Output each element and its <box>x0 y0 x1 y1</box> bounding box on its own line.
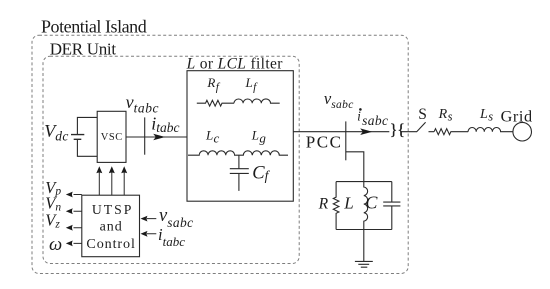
svg-text:and: and <box>100 220 123 235</box>
svg-text:Vz: Vz <box>45 211 60 231</box>
svg-text:UTSP: UTSP <box>92 202 133 217</box>
svg-text:itabc: itabc <box>151 113 179 135</box>
svg-text:Vdc: Vdc <box>44 121 68 143</box>
svg-text:PCC: PCC <box>306 132 343 151</box>
svg-text:L: L <box>343 194 353 213</box>
svg-text:Potential Island: Potential Island <box>41 16 147 36</box>
svg-text:Rf: Rf <box>206 75 220 93</box>
svg-text:Grid: Grid <box>501 108 533 126</box>
svg-text:isabc: isabc <box>357 109 388 129</box>
svg-text:Cf: Cf <box>252 163 270 183</box>
svg-text:Ls: Ls <box>479 107 493 124</box>
svg-text:}{: }{ <box>390 122 405 139</box>
svg-text:VSC: VSC <box>101 132 123 143</box>
svg-text:vsabc: vsabc <box>324 89 354 111</box>
svg-text:Lg: Lg <box>251 128 267 146</box>
svg-text:vtabc: vtabc <box>126 92 159 115</box>
svg-text:Lf: Lf <box>245 75 259 93</box>
svg-text:S: S <box>418 106 427 123</box>
svg-text:DER Unit: DER Unit <box>50 40 117 59</box>
svg-text:C: C <box>365 193 378 213</box>
svg-text:R: R <box>318 196 329 213</box>
svg-text:Rs: Rs <box>438 107 453 124</box>
svg-text:Control: Control <box>86 236 135 252</box>
svg-text:ω: ω <box>49 234 62 255</box>
svg-text:vsabc: vsabc <box>159 206 194 230</box>
svg-text:L or LCL filter: L or LCL filter <box>186 56 284 73</box>
svg-text:Lc: Lc <box>205 128 220 146</box>
